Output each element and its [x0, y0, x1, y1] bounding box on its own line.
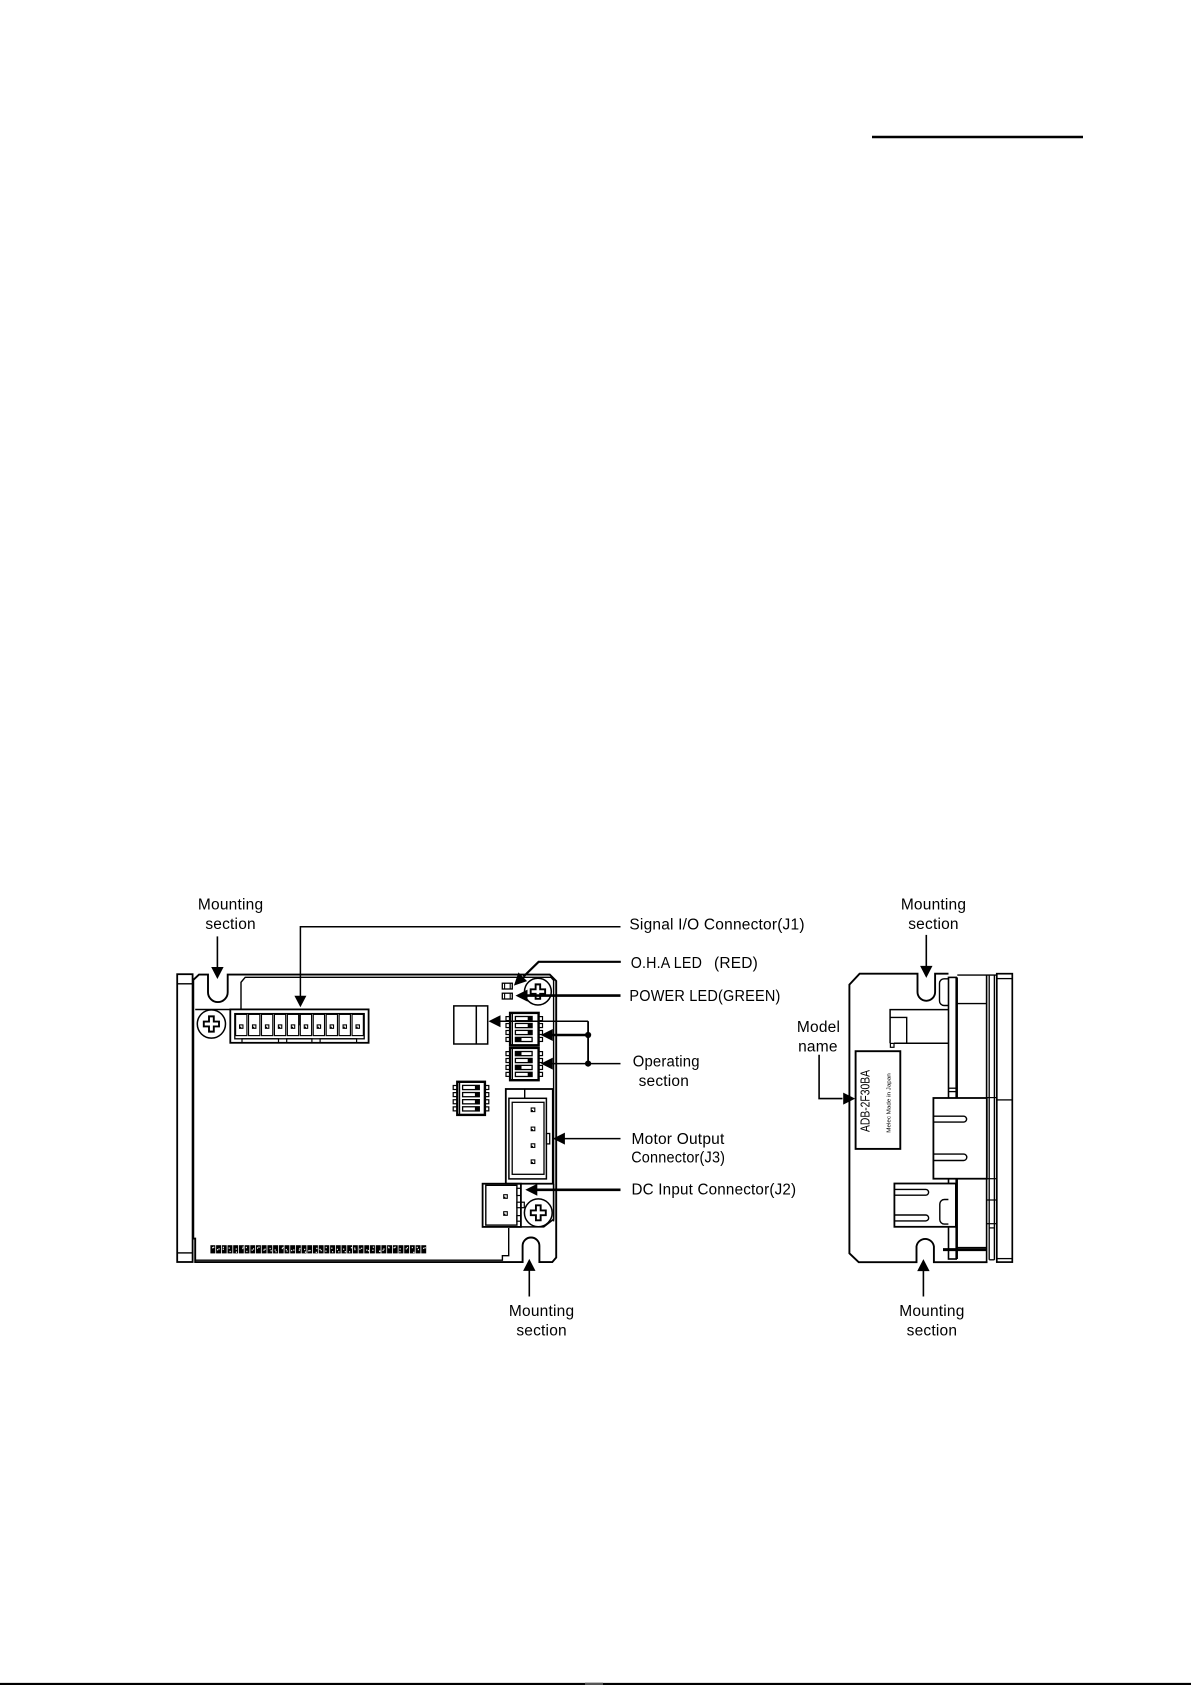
arrow: mounting section bottom (side) — [922, 1271, 924, 1297]
leader: signal I/O connector J1 — [300, 927, 620, 997]
leader: DC input connector J2 — [537, 1189, 621, 1192]
svg-text:Mounting: Mounting — [509, 1303, 574, 1320]
IC block near operating section — [454, 1006, 488, 1044]
side view: bottom clip on PCB — [940, 1200, 949, 1225]
bottom screw region outline — [509, 1184, 554, 1227]
page bottom rule — [0, 1683, 1191, 1685]
leader: POWER LED — [527, 994, 621, 997]
front view: inner panel outline bottom — [195, 1228, 509, 1260]
signal I/O connector J1 outer — [230, 1009, 368, 1042]
side view: J1 connector profile — [890, 1010, 948, 1044]
J3 inner shroud — [509, 1098, 547, 1179]
leader: O.H.A LED — [524, 962, 621, 977]
svg-text:Motor Output: Motor Output — [632, 1131, 725, 1148]
svg-text:ADB-2F30BA: ADB-2F30BA — [859, 1069, 873, 1132]
svg-text:Model: Model — [797, 1019, 840, 1036]
front view: inner panel outline top/right — [241, 977, 554, 1221]
front view: heat-sink plate (left) — [177, 974, 192, 1262]
svg-text:section: section — [639, 1073, 689, 1090]
card edge contact strip (bottom row of pads) — [210, 1245, 215, 1253]
svg-text:Signal I/O Connector(J1): Signal I/O Connector(J1) — [629, 917, 804, 934]
DIP switch SW1 (upper right) — [510, 1013, 538, 1045]
J1 center key line — [299, 1014, 301, 1026]
side view: right strip B — [993, 975, 995, 1260]
leader arrow into IC block — [500, 1020, 589, 1022]
svg-text:name: name — [798, 1038, 838, 1055]
J1 inner shroud — [235, 1014, 364, 1039]
screw top-left — [197, 1010, 225, 1038]
front view: board outer outline — [193, 975, 556, 1263]
svg-text:DC Input Connector(J2): DC Input Connector(J2) — [632, 1181, 797, 1198]
J2 right lock tabs — [517, 1188, 521, 1195]
svg-text:(RED): (RED) — [714, 955, 758, 972]
top right horizontal rule — [872, 136, 1083, 139]
O.H.A LED (red) component — [502, 983, 512, 989]
arrow: mounting section top-left — [216, 936, 218, 967]
junction dot 2 — [585, 1061, 591, 1067]
side view: rear mounting plate — [997, 974, 1013, 1262]
side view: right strip A — [986, 975, 988, 1262]
DC input connector J2 outer — [483, 1184, 521, 1227]
DIP switch SW3 (left small) — [457, 1082, 485, 1115]
side view: top clip on PCB — [940, 979, 949, 1006]
leader arrow into SW2 + line to text — [552, 1063, 621, 1065]
side view: J3 connector profile — [933, 1098, 986, 1179]
leader arrow into SW1 — [552, 1034, 589, 1037]
svg-text:section: section — [516, 1323, 567, 1340]
leader: operating section trunk — [587, 1021, 589, 1063]
svg-text:section: section — [907, 1323, 958, 1340]
svg-text:section: section — [908, 916, 959, 933]
svg-text:Connector(J3): Connector(J3) — [631, 1150, 725, 1167]
svg-text:Operating: Operating — [633, 1054, 700, 1071]
side view: dark lower edge segment — [943, 1248, 987, 1251]
svg-text:O.H.A LED: O.H.A LED — [631, 955, 702, 972]
side view: PCB strip — [949, 977, 957, 1259]
J3 pins — [531, 1108, 535, 1112]
J2 inner — [486, 1185, 517, 1225]
arrow: mounting section bottom (front) — [528, 1271, 530, 1297]
side view: strip divisions right — [987, 1097, 997, 1099]
side view: mid panel division — [957, 1003, 986, 1005]
svg-text:Mounting: Mounting — [198, 896, 263, 913]
side view: J2 connector profile — [894, 1184, 956, 1227]
screw top-right — [525, 978, 552, 1005]
svg-text:Mounting: Mounting — [901, 896, 966, 913]
svg-text:Mounting: Mounting — [899, 1303, 964, 1320]
svg-text:section: section — [205, 916, 256, 933]
leader: model name — [819, 1055, 842, 1099]
J2 pins — [504, 1195, 508, 1199]
front view: ledge line left of J1 — [195, 1009, 230, 1011]
J1 bottom mounting tabs — [242, 1039, 279, 1043]
svg-text:Melec Made in Japan: Melec Made in Japan — [887, 1073, 893, 1133]
screw bottom-right — [524, 1199, 552, 1227]
POWER LED (green) component — [502, 993, 512, 999]
J1 terminal cells — [236, 1014, 247, 1035]
svg-text:POWER LED(GREEN): POWER LED(GREEN) — [629, 988, 780, 1005]
J3 side lock tab — [546, 1134, 549, 1144]
motor output connector J3 outer — [506, 1089, 553, 1184]
side view: body outline — [849, 974, 987, 1262]
DIP switch SW2 (lower right) — [510, 1048, 538, 1080]
arrow: mounting section top (side) — [925, 935, 927, 967]
side view: top edge over strips — [957, 974, 997, 976]
side view: model name label — [856, 1051, 901, 1149]
leader: motor output connector J3 — [564, 1138, 621, 1140]
junction dot 1 — [585, 1032, 591, 1038]
